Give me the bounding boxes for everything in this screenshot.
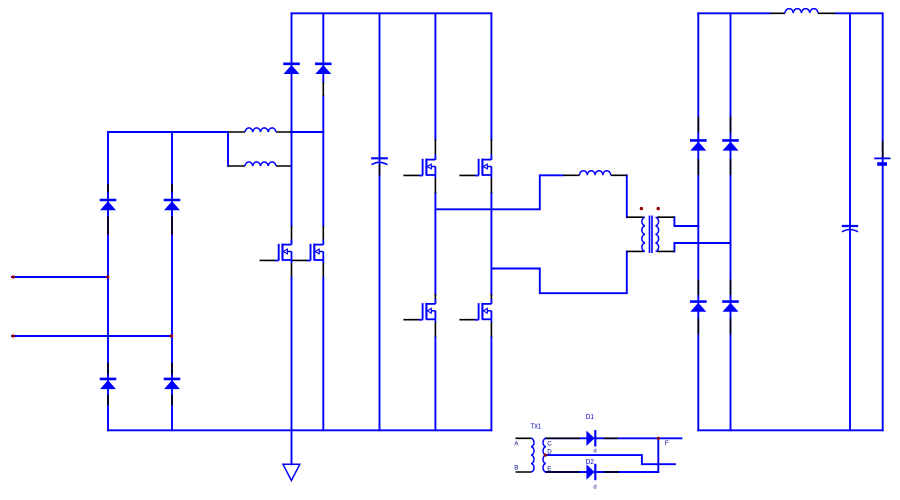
wire output capacitor column <box>849 13 851 430</box>
pin leads PFC inductor 1 <box>228 131 291 133</box>
transformer T1 polarity dot primary <box>640 207 643 210</box>
wire AC input line N <box>12 335 172 337</box>
wire battery column <box>882 13 884 430</box>
diode D_L2 bottom (input bridge) <box>164 379 181 389</box>
wire input bridge column 2 <box>171 132 173 430</box>
pin leads output diode D_O3 <box>697 280 699 335</box>
pin leads input diode D_L1 bottom <box>107 363 109 406</box>
pin lead diode D1 cathode <box>604 437 618 439</box>
diode D_L1 bottom (input bridge) <box>100 379 117 389</box>
diode D_L1 top (input bridge) <box>100 200 117 210</box>
mosfet Q5 bridge low A <box>419 299 435 323</box>
wire transformer secondary bottom to rectifier column 2 <box>674 243 730 251</box>
pin lead diode D2 cathode <box>604 471 619 473</box>
wire transformer secondary top to rectifier column 1 <box>674 217 698 226</box>
pin leads aux transformer TX1 secondary <box>546 438 580 472</box>
wire full-bridge leg B column <box>490 13 492 430</box>
pin leads main transformer secondary <box>657 217 674 251</box>
diode D1 <box>586 430 595 446</box>
wire output rectifier column 2 <box>730 13 732 430</box>
mosfet Q4 bridge high B <box>475 155 491 179</box>
pin leads output diode D_O4 <box>730 280 732 335</box>
wire top bus rail <box>292 12 492 14</box>
wire output bottom rail <box>698 429 882 431</box>
aux transformer TX1 secondary winding <box>543 438 546 472</box>
mosfet Q1 boost leg 1 <box>275 240 291 264</box>
svg-text:d: d <box>593 448 596 454</box>
diode output rectifier 3 <box>690 302 707 312</box>
svg-text:F: F <box>665 440 669 447</box>
wire bus capacitor column <box>379 13 381 430</box>
mosfet Q3 bridge high A <box>419 155 435 179</box>
transformer T1 core <box>650 216 653 254</box>
pin leads bridge mosfet Q4 <box>459 139 491 193</box>
pin leads boost mosfet Q1 <box>260 226 292 277</box>
mosfet Q2 boost leg 2 <box>307 240 323 264</box>
aux transformer TX1 primary winding <box>531 438 534 472</box>
transformer T1 primary winding <box>642 217 645 251</box>
diode D_L2 top (input bridge) <box>164 200 181 210</box>
wire leg B midpoint to transformer primary bottom <box>491 251 626 293</box>
pin leads (black) <box>108 13 883 472</box>
wire aux junction vertical <box>657 438 659 472</box>
wire main bottom rail <box>108 429 491 431</box>
wire boost leg 1 column <box>291 13 293 464</box>
transformer T1 secondary winding <box>656 217 659 251</box>
wire bridge top rail <box>108 131 228 133</box>
wire output top rail right <box>835 12 882 14</box>
wire aux center tap return <box>545 455 675 464</box>
node dot aux center tap <box>544 454 547 457</box>
svg-text:C: C <box>547 440 552 447</box>
wire output top rail left <box>698 12 770 14</box>
diode output rectifier 4 <box>722 302 739 312</box>
diode output rectifier 1 <box>690 140 707 150</box>
pin leads boost mosfet Q2 <box>292 226 324 277</box>
pin leads bridge mosfet Q5 <box>403 294 435 337</box>
wire aux D2 output line <box>546 471 658 473</box>
bus capacitor C1 <box>371 158 388 164</box>
svg-text:D2: D2 <box>586 459 594 466</box>
battery B1 <box>874 158 890 164</box>
node dot input N left <box>12 334 15 337</box>
wire aux D1 output line node F <box>546 437 681 439</box>
svg-text:d: d <box>593 485 596 491</box>
pin leads PFC inductor 2 <box>228 165 291 167</box>
wire leg A midpoint to resonant inductor <box>435 175 563 209</box>
pin leads bridge mosfet Q3 <box>403 139 435 193</box>
pin leads main transformer primary <box>627 217 644 251</box>
svg-text:D: D <box>547 449 552 456</box>
pin leads input diode D_L2 top <box>171 184 173 235</box>
pin leads input diode D_L1 top <box>107 184 109 235</box>
diode D2 <box>586 464 595 480</box>
svg-text:A: A <box>514 440 519 447</box>
wire boost leg 2 column <box>322 13 324 430</box>
svg-text:D1: D1 <box>586 414 594 421</box>
PFC inductor 1 coil <box>245 128 276 132</box>
pin leads input diode D_L2 bottom <box>171 363 173 406</box>
pin lead bus capacitor <box>379 165 381 176</box>
transformer T1 polarity dot secondary <box>657 207 660 210</box>
node dot input N right <box>170 334 173 337</box>
wire full-bridge leg A column <box>434 13 436 430</box>
pin leads output diode D_O2 <box>730 117 732 176</box>
pin leads aux transformer TX1 primary <box>516 438 532 472</box>
node dot input L right <box>106 275 109 278</box>
wire inductor block left vertical <box>227 132 229 166</box>
output filter inductor coil <box>785 9 818 14</box>
output capacitor C2 <box>842 226 858 232</box>
wire resonant inductor to transformer primary top <box>626 175 628 217</box>
wire top inductor output to boost leg 2 <box>291 131 324 133</box>
PFC inductor 2 coil <box>245 162 276 166</box>
wire output rectifier column 1 <box>697 13 699 430</box>
pin leads output filter inductor <box>771 12 836 14</box>
svg-text:TX1: TX1 <box>531 424 542 431</box>
resonant inductor coil <box>580 171 611 176</box>
svg-text:E: E <box>547 465 551 472</box>
wire AC input line L <box>12 276 108 278</box>
node dot aux junction F <box>657 437 660 440</box>
svg-text:B: B <box>514 465 518 472</box>
pin lead battery <box>882 141 884 158</box>
pin lead boost diode leg2 <box>322 82 324 96</box>
diode output rectifier 2 <box>722 140 739 150</box>
mosfet Q6 bridge low B <box>475 299 491 323</box>
pin leads bridge mosfet Q6 <box>459 294 491 337</box>
pin leads resonant inductor <box>563 174 627 176</box>
ground <box>283 464 300 480</box>
pin leads output diode D_O1 <box>697 117 699 176</box>
diode boost leg 2 <box>315 64 332 74</box>
node dot input L left <box>12 275 15 278</box>
diode boost leg 1 <box>283 64 300 74</box>
wire input bridge column 1 <box>107 132 109 430</box>
